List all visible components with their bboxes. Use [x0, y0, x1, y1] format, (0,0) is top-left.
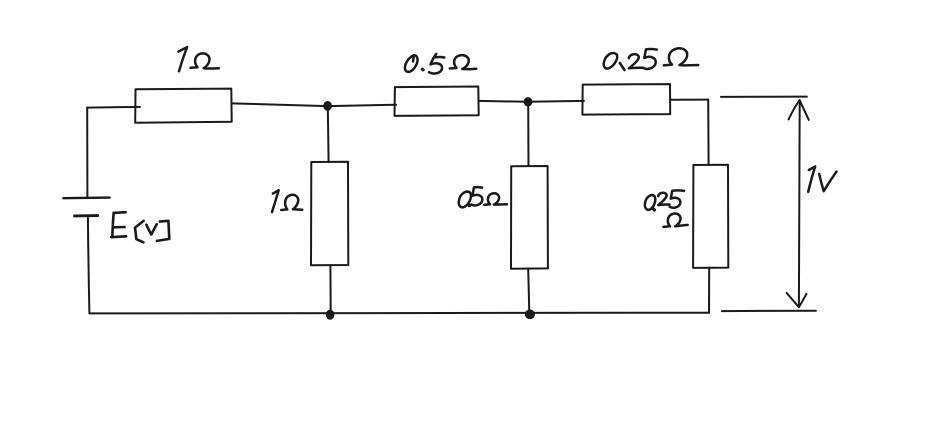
- wire: node B to R3: [528, 100, 584, 103]
- resistor R6 box (0.25 ohm shunt): [693, 165, 728, 268]
- wire: R1 to node A: [232, 103, 328, 106]
- wire: R6 down to bottom-right corner: [708, 268, 710, 313]
- resistor R3 box (0.25 ohm series): [582, 84, 670, 115]
- junction dot bottom of R5: [525, 310, 535, 320]
- wire: R4 down to bottom wire: [329, 265, 331, 313]
- output terminal tick bottom: [722, 310, 816, 312]
- wire: R5 down to bottom wire: [528, 269, 529, 314]
- label R5 value 0.5 ohm: [459, 187, 507, 207]
- resistor R4 box (1 ohm shunt): [311, 162, 348, 266]
- bottom wire: [89, 312, 709, 315]
- label R1 value 1 ohm: [178, 47, 218, 71]
- arrowhead top: [789, 100, 809, 120]
- output terminal tick top: [721, 96, 807, 98]
- wire: battery positive terminal up to top-left corner: [86, 108, 88, 198]
- label R3 value 0.25 ohm: [604, 48, 698, 70]
- label R6 value 0.25 ohm (two lines): [645, 190, 688, 226]
- arrow shaft 1V measurement: [798, 100, 801, 306]
- junction dot bottom of R4: [326, 310, 335, 320]
- label E[v]: [111, 212, 169, 242]
- resistor R5 box (0.5 ohm shunt): [511, 166, 548, 269]
- wire: node B down to R5: [527, 102, 529, 166]
- node A junction dot: [323, 101, 332, 111]
- arrowhead bottom: [787, 293, 807, 307]
- wire: node A down to R4: [327, 106, 330, 162]
- wire: R2 to node B: [479, 100, 528, 103]
- label R4 value 1 ohm: [272, 190, 302, 212]
- resistor R1 box (1 ohm series): [135, 89, 232, 123]
- wire: node A to R2: [328, 105, 396, 106]
- wire: top-left horizontal into R1: [87, 106, 140, 109]
- node B junction dot: [524, 97, 533, 106]
- wire: top-right corner down to R6: [707, 100, 709, 165]
- battery E: [63, 198, 109, 216]
- wire: R3 to top-right corner: [670, 99, 708, 101]
- resistor R2 box (0.5 ohm series): [395, 87, 479, 116]
- label R2 value 0.5 ohm: [405, 54, 476, 74]
- wire: battery negative terminal down to bottom-left corner: [88, 218, 90, 313]
- label 1V: [808, 166, 836, 191]
